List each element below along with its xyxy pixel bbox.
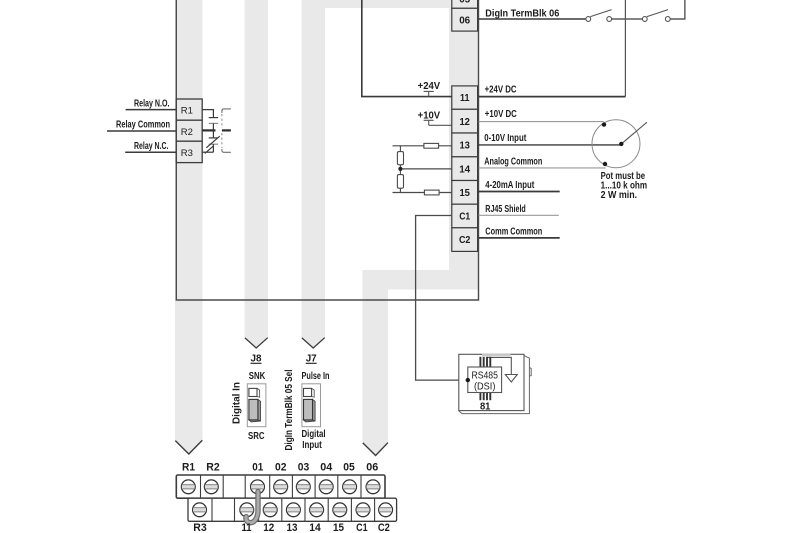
svg-text:Input: Input	[302, 440, 322, 451]
wire Comm Common	[479, 237, 560, 239]
terminal block upper row body	[176, 475, 385, 498]
terminal C2	[452, 228, 478, 252]
switch S1 right circle	[607, 17, 612, 22]
contact N.C. slash	[206, 136, 219, 148]
svg-text:C1: C1	[356, 522, 368, 533]
svg-text:04: 04	[320, 462, 333, 474]
svg-text:81: 81	[480, 400, 491, 412]
wire resistor divider vertical	[399, 146, 401, 193]
highlight L path horizontal	[363, 270, 479, 290]
contact N.O. bar bottom	[209, 122, 218, 124]
wire contact to R2	[212, 123, 214, 130]
wire between switches	[612, 18, 643, 20]
jumper wire 01 to 11	[246, 492, 258, 523]
screw 01	[251, 480, 265, 494]
svg-text:+24V: +24V	[418, 81, 441, 92]
wire C1 to RS485 module	[416, 216, 468, 381]
relay linkage dashed column	[221, 114, 223, 148]
module body	[459, 354, 524, 410]
svg-text:SNK: SNK	[249, 371, 266, 382]
relay linkage bracket bottom	[222, 149, 231, 152]
screw 06	[366, 480, 380, 494]
svg-text:12: 12	[263, 522, 274, 533]
svg-text:C2: C2	[378, 522, 390, 533]
node junction on 14	[398, 167, 402, 171]
svg-text:13: 13	[459, 140, 470, 152]
svg-text:15: 15	[333, 522, 344, 533]
screw 15	[333, 503, 347, 517]
relay linkage bracket top	[222, 109, 231, 113]
switch J8 body	[247, 384, 266, 427]
arrowhead chevron B	[245, 338, 268, 348]
connector hatch top	[480, 357, 490, 367]
highlight band B (J8 path)	[245, 0, 269, 339]
svg-text:R2: R2	[206, 462, 220, 474]
switch S2 right circle	[665, 17, 670, 22]
symbol +24V tap	[424, 91, 434, 96]
svg-text:SRC: SRC	[248, 431, 265, 442]
underline J8	[251, 362, 262, 364]
svg-text:R1: R1	[182, 462, 195, 474]
svg-text:13: 13	[287, 522, 298, 533]
pot body circle	[592, 120, 640, 168]
module bump right	[529, 368, 531, 377]
svg-text:01: 01	[252, 462, 263, 474]
relay linkage mid bar	[222, 129, 231, 131]
switch J7 top cube	[312, 388, 315, 397]
screw 11	[240, 503, 254, 517]
svg-text:0-10V Input: 0-10V Input	[484, 132, 526, 144]
contact N.C. slash 2	[205, 146, 214, 154]
wire S2 to top	[670, 0, 685, 19]
terminal 11	[452, 86, 478, 109]
highlight top slab	[325, 0, 452, 8]
terminal block lower row body	[188, 498, 397, 521]
svg-text:R3: R3	[193, 522, 207, 533]
relay terminal block R1/R2/R3	[176, 99, 202, 163]
switch S1 left circle	[586, 17, 591, 22]
svg-text:05: 05	[459, 0, 470, 5]
wire Relay Common lead	[107, 130, 176, 132]
wire +10V DC to pot	[479, 121, 604, 123]
svg-text:Comm Common: Comm Common	[485, 225, 542, 237]
arrowhead chevron A	[175, 440, 202, 454]
arrowhead chevron 06	[363, 443, 388, 456]
switch J8 slider	[258, 399, 261, 421]
relay contact chain	[202, 110, 220, 154]
svg-text:06: 06	[459, 15, 470, 27]
contact N.C. bar top	[209, 137, 218, 139]
svg-text:DigIn TermBlk 05 Sel: DigIn TermBlk 05 Sel	[284, 369, 295, 450]
wire 0-10V Input to pot wiper	[479, 144, 622, 146]
lower row labels	[193, 522, 390, 533]
screw C2	[379, 503, 393, 517]
svg-text:03: 03	[298, 462, 310, 474]
resistor on 15 lead	[424, 190, 439, 195]
screw R3	[193, 503, 207, 517]
wire +24V feed vertical	[362, 0, 452, 97]
screw 04	[319, 480, 333, 494]
screw 03	[296, 480, 310, 494]
node pot top	[602, 122, 606, 126]
svg-text:R3: R3	[181, 148, 193, 159]
lower row dividers	[212, 498, 375, 521]
terminal 14	[452, 157, 478, 181]
switch S2 blade	[647, 10, 668, 17]
node pot wiper	[619, 142, 623, 146]
wire contact to R3	[212, 144, 214, 152]
screw R1	[181, 480, 195, 494]
svg-text:06: 06	[366, 462, 378, 474]
switch J7 body	[302, 384, 321, 427]
resistor vertical lower	[397, 175, 403, 189]
wire R2 down to N.C. contact	[212, 130, 214, 138]
svg-text:2 W min.: 2 W min.	[601, 190, 638, 201]
screw C1	[356, 503, 370, 517]
terminal C1	[452, 204, 478, 228]
wire R2 stub thick	[202, 129, 215, 131]
underline J7	[306, 362, 317, 364]
svg-text:DigIn TermBlk 06: DigIn TermBlk 06	[485, 7, 559, 19]
wire R1 stub to contact	[202, 110, 213, 117]
module inner label box	[468, 367, 502, 393]
wire Analog Common to pot	[479, 167, 606, 169]
svg-text:+24V DC: +24V DC	[485, 84, 517, 96]
contact N.O. bar top	[209, 117, 218, 119]
svg-text:R2: R2	[181, 127, 193, 138]
svg-text:14: 14	[309, 522, 321, 533]
screw 12	[263, 503, 277, 517]
wire +24V DC	[479, 96, 626, 98]
highlight band A (relay R1 path)	[175, 0, 203, 441]
switch S2 left circle	[642, 17, 647, 22]
wire to arrow	[487, 357, 511, 374]
pot wiper line	[621, 122, 647, 144]
wire RJ45 Shield	[479, 214, 559, 216]
screw 05	[343, 480, 357, 494]
node pot bottom	[603, 162, 607, 166]
terminal 12	[452, 109, 478, 133]
svg-text:02: 02	[275, 462, 287, 474]
svg-text:14: 14	[459, 163, 470, 175]
highlight band C (J7 path)	[302, 0, 326, 339]
terminal 15	[452, 181, 478, 205]
connector hatch bottom	[480, 393, 490, 401]
svg-text:+10V: +10V	[418, 111, 441, 122]
module 3D bevel right/bottom	[459, 356, 530, 414]
switch J7 slider	[313, 399, 316, 421]
wire Relay N.O. lead	[126, 109, 177, 111]
switch J8 top cube	[257, 388, 260, 397]
svg-text:R1: R1	[181, 106, 193, 117]
svg-text:11: 11	[460, 92, 470, 104]
resistor on 13 lead	[424, 143, 439, 148]
highlight band behind terminal strip	[449, 0, 479, 290]
svg-text:RS485: RS485	[471, 370, 498, 381]
wire switch node vertical	[624, 0, 626, 97]
wire Relay N.C. lead	[125, 151, 176, 153]
svg-text:Relay N.C.: Relay N.C.	[134, 141, 169, 152]
highlight L path vertical (06 path)	[363, 270, 389, 443]
svg-text:C2: C2	[459, 234, 471, 246]
upper row dividers	[201, 475, 362, 498]
wire terminal 13 left lead	[393, 145, 452, 147]
terminal 06	[452, 8, 478, 31]
switch S1 blade	[590, 10, 611, 17]
symbol down arrow	[505, 375, 517, 383]
screw 14	[310, 503, 324, 517]
wire +10V feed	[429, 124, 452, 126]
resistor vertical upper	[397, 152, 403, 165]
svg-text:Analog Common: Analog Common	[484, 156, 542, 168]
wire terminal 15 left lead	[393, 192, 452, 194]
svg-text:Relay Common: Relay Common	[116, 120, 170, 131]
svg-text:(DSI): (DSI)	[474, 382, 496, 393]
svg-text:Digital: Digital	[302, 429, 326, 440]
wire 4-20mA Input	[479, 191, 560, 193]
svg-text:C1: C1	[459, 211, 470, 223]
svg-text:Digital In: Digital In	[232, 382, 243, 424]
terminal 13	[452, 133, 478, 157]
svg-text:05: 05	[343, 462, 355, 474]
svg-text:4-20mA Input: 4-20mA Input	[485, 179, 534, 191]
wire terminal 14 left lead	[400, 168, 451, 170]
svg-text:RJ45 Shield: RJ45 Shield	[485, 203, 526, 215]
svg-text:+10V DC: +10V DC	[485, 108, 517, 120]
screw 13	[287, 503, 301, 517]
svg-text:11: 11	[242, 522, 252, 533]
wire R3 stub	[202, 151, 213, 153]
svg-text:Pulse In: Pulse In	[302, 371, 330, 382]
module top gray bar	[482, 353, 511, 356]
svg-text:Relay N.O.: Relay N.O.	[134, 99, 170, 110]
svg-text:12: 12	[459, 116, 470, 128]
svg-text:15: 15	[459, 187, 470, 199]
terminal 05 (cut off)	[452, 0, 478, 8]
symbol +10V tap	[424, 120, 434, 125]
screw R2	[204, 480, 218, 494]
arrowhead chevron C	[302, 338, 325, 348]
wire 06 line	[479, 18, 587, 20]
screw 02	[274, 480, 288, 494]
upper row labels	[182, 462, 378, 474]
contact N.C. bar bottom	[209, 143, 218, 145]
node junction C1 wire	[466, 378, 470, 382]
